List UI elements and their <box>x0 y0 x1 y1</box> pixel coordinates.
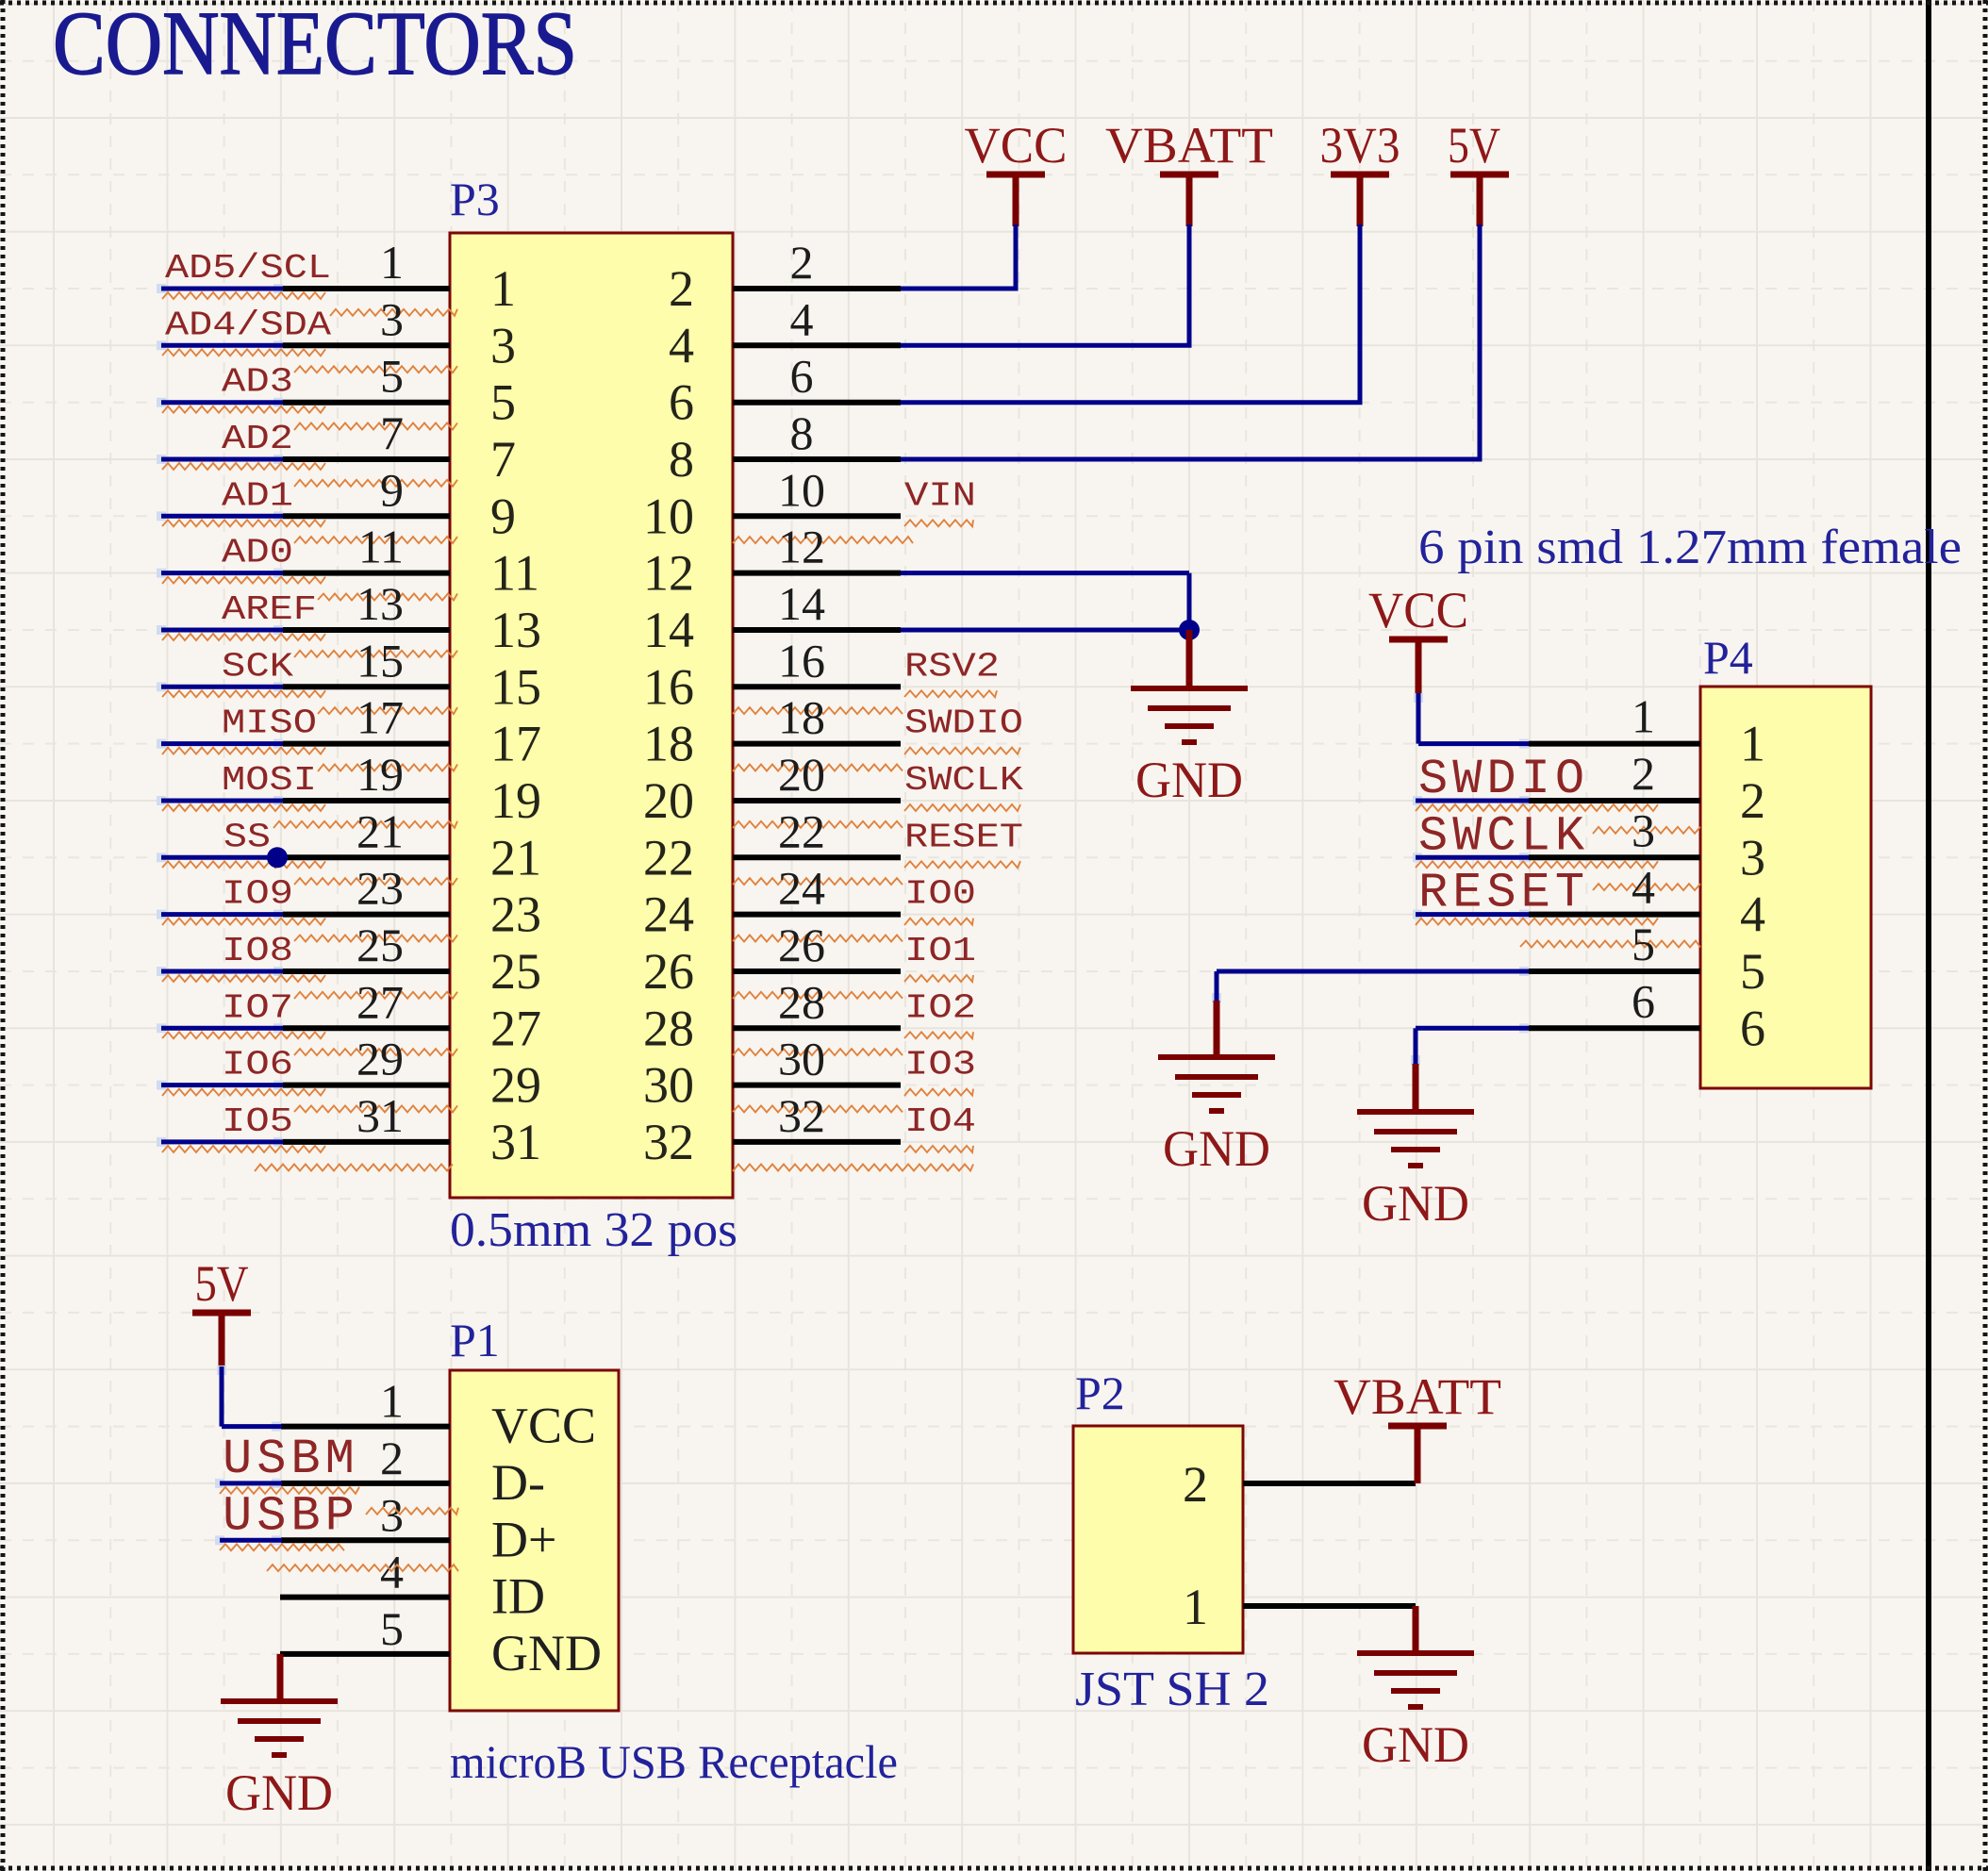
svg-text:16: 16 <box>643 658 694 715</box>
svg-text:18: 18 <box>778 691 825 744</box>
svg-text:CONNECTORS: CONNECTORS <box>53 0 577 93</box>
svg-text:25: 25 <box>356 919 404 971</box>
svg-text:ID: ID <box>491 1568 545 1625</box>
svg-text:VCC: VCC <box>1368 582 1468 638</box>
svg-text:5: 5 <box>1632 918 1655 970</box>
svg-text:2: 2 <box>1632 747 1655 800</box>
svg-text:5: 5 <box>1740 943 1765 1000</box>
svg-text:SWDIO: SWDIO <box>904 704 1023 743</box>
svg-text:P3: P3 <box>450 173 500 225</box>
svg-text:11: 11 <box>358 521 404 573</box>
svg-text:32: 32 <box>778 1089 825 1142</box>
svg-text:2: 2 <box>1183 1456 1208 1513</box>
svg-text:AD2: AD2 <box>222 420 293 458</box>
svg-text:31: 31 <box>490 1114 541 1170</box>
svg-text:VCC: VCC <box>491 1398 596 1454</box>
svg-text:VIN: VIN <box>904 476 976 515</box>
svg-text:JST SH 2: JST SH 2 <box>1075 1663 1269 1716</box>
svg-text:USBP: USBP <box>223 1488 359 1544</box>
svg-text:IO5: IO5 <box>222 1102 293 1141</box>
svg-text:IO9: IO9 <box>222 875 293 914</box>
svg-text:AD0: AD0 <box>222 534 293 572</box>
svg-text:26: 26 <box>643 943 694 1000</box>
svg-text:SCK: SCK <box>222 647 293 686</box>
svg-text:19: 19 <box>490 772 541 829</box>
svg-text:1: 1 <box>1183 1579 1208 1635</box>
svg-text:IO0: IO0 <box>904 875 976 914</box>
svg-text:P1: P1 <box>450 1314 500 1366</box>
svg-text:22: 22 <box>778 804 825 857</box>
svg-text:30: 30 <box>643 1057 694 1114</box>
svg-text:5: 5 <box>380 350 404 403</box>
svg-text:MOSI: MOSI <box>222 761 317 800</box>
svg-text:3: 3 <box>1632 803 1655 856</box>
svg-text:14: 14 <box>643 602 694 658</box>
svg-text:VBATT: VBATT <box>1105 117 1273 174</box>
svg-text:24: 24 <box>643 886 694 943</box>
svg-text:25: 25 <box>490 943 541 1000</box>
svg-text:GND: GND <box>1163 1120 1270 1177</box>
svg-text:GND: GND <box>1362 1175 1469 1232</box>
svg-text:24: 24 <box>778 862 825 915</box>
svg-text:28: 28 <box>643 1000 694 1056</box>
svg-text:2: 2 <box>669 260 694 317</box>
svg-text:IO8: IO8 <box>222 932 293 970</box>
svg-text:IO4: IO4 <box>904 1102 976 1141</box>
svg-text:IO6: IO6 <box>222 1046 293 1085</box>
svg-text:28: 28 <box>778 975 825 1028</box>
svg-text:RSV2: RSV2 <box>904 647 1000 686</box>
svg-text:18: 18 <box>643 716 694 772</box>
svg-text:IO2: IO2 <box>904 988 976 1027</box>
svg-text:27: 27 <box>490 1000 541 1056</box>
svg-text:USBM: USBM <box>223 1432 359 1487</box>
svg-text:GND: GND <box>1362 1716 1469 1773</box>
svg-text:27: 27 <box>356 975 404 1028</box>
svg-text:P4: P4 <box>1703 631 1753 684</box>
svg-text:1: 1 <box>1632 690 1655 743</box>
svg-text:RESET: RESET <box>904 818 1023 856</box>
svg-text:AD3: AD3 <box>222 363 293 402</box>
svg-text:13: 13 <box>356 577 404 630</box>
svg-text:5: 5 <box>490 374 516 431</box>
svg-text:AD5/SCL: AD5/SCL <box>165 249 331 288</box>
svg-text:9: 9 <box>490 488 516 544</box>
svg-text:3: 3 <box>1740 829 1765 886</box>
svg-text:6: 6 <box>1632 974 1655 1027</box>
svg-text:SWCLK: SWCLK <box>904 761 1023 800</box>
svg-text:10: 10 <box>778 463 825 516</box>
svg-text:5V: 5V <box>1448 117 1500 174</box>
svg-text:GND: GND <box>225 1764 333 1821</box>
svg-text:12: 12 <box>778 521 825 573</box>
svg-text:6: 6 <box>669 374 694 431</box>
svg-text:7: 7 <box>490 431 516 488</box>
svg-text:29: 29 <box>490 1057 541 1114</box>
svg-text:2: 2 <box>790 236 814 289</box>
svg-text:22: 22 <box>643 829 694 886</box>
svg-text:IO7: IO7 <box>222 988 293 1027</box>
svg-text:5V: 5V <box>195 1255 249 1312</box>
svg-text:SS: SS <box>224 818 271 856</box>
svg-text:11: 11 <box>490 545 539 602</box>
svg-text:D+: D+ <box>491 1511 556 1567</box>
svg-text:19: 19 <box>356 748 404 801</box>
svg-text:8: 8 <box>790 406 814 459</box>
svg-text:32: 32 <box>643 1114 694 1170</box>
svg-text:17: 17 <box>356 691 404 744</box>
svg-text:23: 23 <box>356 862 404 915</box>
svg-text:14: 14 <box>778 577 825 630</box>
svg-text:16: 16 <box>778 634 825 687</box>
svg-text:15: 15 <box>356 634 404 687</box>
svg-text:21: 21 <box>490 829 541 886</box>
svg-text:microB USB Receptacle: microB USB Receptacle <box>450 1735 898 1788</box>
svg-text:0.5mm 32 pos: 0.5mm 32 pos <box>450 1203 737 1257</box>
svg-text:13: 13 <box>490 602 541 658</box>
svg-text:2: 2 <box>380 1432 404 1484</box>
svg-text:20: 20 <box>643 772 694 829</box>
svg-text:AREF: AREF <box>222 590 317 629</box>
svg-text:1: 1 <box>490 260 516 317</box>
svg-text:VCC: VCC <box>965 117 1068 174</box>
svg-text:10: 10 <box>643 488 694 544</box>
svg-text:IO3: IO3 <box>904 1046 976 1085</box>
svg-text:MISO: MISO <box>222 704 317 743</box>
svg-text:26: 26 <box>778 919 825 971</box>
svg-text:3V3: 3V3 <box>1320 117 1400 174</box>
svg-text:23: 23 <box>490 886 541 943</box>
svg-text:6 pin smd 1.27mm female: 6 pin smd 1.27mm female <box>1418 521 1962 574</box>
svg-text:9: 9 <box>380 463 404 516</box>
svg-text:31: 31 <box>356 1089 404 1142</box>
svg-text:IO1: IO1 <box>904 932 976 970</box>
svg-text:7: 7 <box>380 406 404 459</box>
svg-text:GND: GND <box>1135 752 1243 808</box>
svg-text:1: 1 <box>1740 716 1765 772</box>
svg-text:20: 20 <box>778 748 825 801</box>
svg-text:3: 3 <box>380 292 404 345</box>
svg-text:AD1: AD1 <box>222 476 293 515</box>
svg-text:4: 4 <box>1740 886 1765 943</box>
svg-text:1: 1 <box>380 236 404 289</box>
svg-text:29: 29 <box>356 1033 404 1085</box>
svg-text:21: 21 <box>356 804 404 857</box>
svg-text:3: 3 <box>490 317 516 373</box>
svg-text:VBATT: VBATT <box>1334 1368 1501 1425</box>
svg-text:D-: D- <box>491 1454 545 1511</box>
svg-text:1: 1 <box>380 1375 404 1428</box>
svg-text:4: 4 <box>669 317 694 373</box>
svg-text:8: 8 <box>669 431 694 488</box>
svg-text:P2: P2 <box>1075 1366 1125 1419</box>
svg-text:12: 12 <box>643 545 694 602</box>
svg-text:6: 6 <box>1740 1000 1765 1056</box>
svg-text:30: 30 <box>778 1033 825 1085</box>
svg-text:5: 5 <box>380 1602 404 1655</box>
svg-text:AD4/SDA: AD4/SDA <box>165 306 331 344</box>
svg-text:17: 17 <box>490 716 541 772</box>
svg-text:GND: GND <box>491 1625 602 1681</box>
svg-text:2: 2 <box>1740 772 1765 829</box>
svg-text:4: 4 <box>790 292 814 345</box>
svg-text:6: 6 <box>790 350 814 403</box>
svg-text:15: 15 <box>490 658 541 715</box>
svg-text:4: 4 <box>1632 861 1655 914</box>
